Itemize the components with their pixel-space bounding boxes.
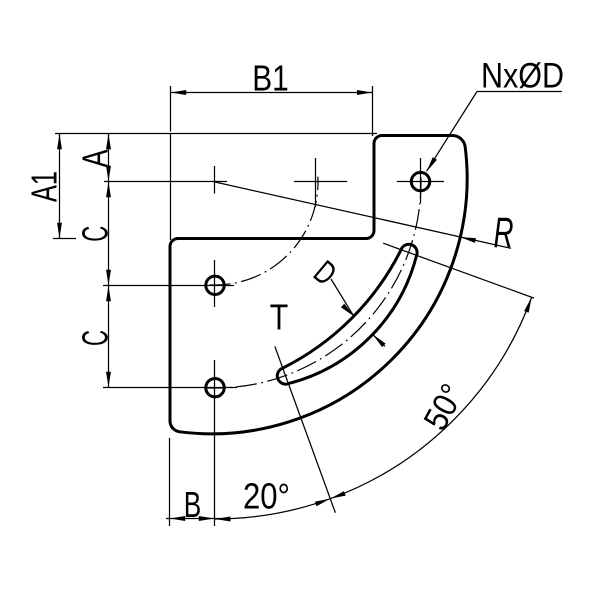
centerline through lower hole extended down (extension for B and 20 deg) [214, 360, 216, 526]
angular dimension 50 deg [330, 243, 534, 498]
hole left lower [206, 379, 224, 397]
dimension C (pivot to upper hole) [108, 182, 110, 286]
angular dimension 20 deg [215, 346, 335, 519]
hole top-right (N x diameter D) [411, 172, 429, 190]
dimension B1 (top) [171, 86, 373, 136]
phantom leg left edge [170, 134, 172, 241]
hole left upper [206, 276, 224, 294]
phantom leg top edge / extension line [55, 133, 377, 135]
hole left upper centerlines [103, 260, 234, 307]
leader N x diameter D (to top-right hole) [427, 92, 562, 172]
radius leader R [215, 182, 511, 248]
svg-text:A1: A1 [24, 171, 65, 202]
svg-text:A: A [75, 150, 116, 168]
svg-text:T: T [270, 297, 289, 338]
svg-text:B1: B1 [252, 58, 289, 99]
hole top-right centerlines [397, 158, 444, 203]
part outline (corner bracket, outer radius R) [170, 136, 467, 434]
bolt-circle centerline arc r103 (dash-dot) [210, 177, 318, 285]
bolt-circle centerline arc r206 (dash-dot) [204, 168, 421, 388]
svg-text:C: C [75, 330, 116, 346]
phantom hole center mark [294, 158, 347, 207]
svg-text:NxØD: NxØD [481, 56, 564, 95]
svg-text:R: R [494, 209, 514, 257]
hole left lower centerline horizontal [103, 387, 237, 389]
svg-text:C: C [75, 226, 116, 242]
arc slot (width D, crescent about pivot) [277, 244, 417, 384]
pivot center mark [104, 166, 227, 194]
dimension C (upper hole to lower hole) [108, 286, 110, 388]
dimension A (left, edge to pivot) [108, 134, 110, 182]
svg-text:B: B [184, 484, 202, 525]
dimension D (slot width) [331, 279, 385, 346]
dimension A1 (left outer) [53, 134, 76, 239]
svg-text:20°: 20° [243, 476, 290, 517]
dimension B (bottom, edge to hole centerline) [166, 438, 222, 526]
